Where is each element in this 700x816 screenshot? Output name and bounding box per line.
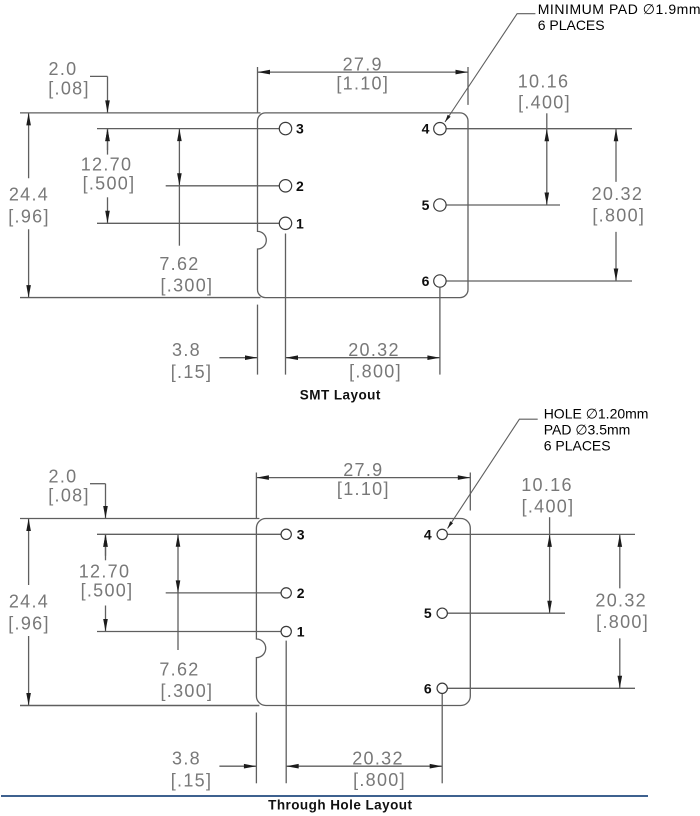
svg-text:3.8: 3.8	[172, 340, 201, 360]
Through-hole layout: dimension 2.0 [.08]	[48, 466, 108, 560]
svg-text:[1.10]: [1.10]	[337, 479, 390, 499]
SMT layout: dimension 3.8 [.15]	[171, 340, 258, 382]
SMT layout: pin 6 column extension line	[439, 288, 441, 375]
Through-hole layout: left extension line above body	[255, 473, 257, 519]
svg-text:6: 6	[424, 680, 432, 696]
svg-text:[.96]: [.96]	[8, 613, 50, 633]
SMT layout: dimension 20.32 [.800] right side	[592, 129, 646, 281]
Through-hole layout: pin 1 row line	[97, 631, 281, 633]
SMT layout: caption	[300, 388, 381, 403]
Through-hole layout: dimension 3.8 [.15]	[171, 748, 257, 790]
SMT layout: pin 3 row line	[97, 128, 279, 130]
Through-hole layout: dimension 27.9 [1.10]	[256, 460, 470, 499]
svg-text:[.800]: [.800]	[596, 612, 649, 632]
SMT layout: bottom edge extension line to left	[20, 297, 261, 299]
Through-hole layout: dimension 20.32 [.800] right side	[595, 534, 649, 688]
svg-text:2: 2	[297, 585, 305, 601]
Through-hole layout: bottom edge extension line to left	[20, 705, 259, 707]
SMT layout: pad 6	[422, 273, 446, 289]
svg-text:27.9: 27.9	[343, 460, 383, 480]
svg-text:24.4: 24.4	[9, 185, 49, 205]
SMT layout: dimension 7.62 [.300]	[159, 129, 213, 296]
svg-text:MINIMUM PAD ∅1.9mm: MINIMUM PAD ∅1.9mm	[538, 1, 700, 17]
svg-text:7.62: 7.62	[159, 254, 199, 274]
svg-text:4: 4	[422, 121, 430, 137]
svg-text:[.400]: [.400]	[522, 496, 575, 516]
svg-text:[.400]: [.400]	[518, 93, 571, 113]
svg-text:2.0: 2.0	[49, 466, 78, 486]
Through-hole layout: pad 6	[424, 680, 447, 696]
svg-text:2.0: 2.0	[49, 59, 78, 79]
svg-text:HOLE ∅1.20mm: HOLE ∅1.20mm	[544, 405, 649, 421]
SMT layout: callout text	[538, 1, 700, 33]
svg-text:20.32: 20.32	[352, 748, 404, 768]
SMT layout: dimension 12.70 [.500]	[81, 129, 136, 224]
Through-hole layout: top edge extension line to left	[20, 518, 259, 520]
Through-hole layout: pin 6 row line	[447, 687, 635, 689]
Through-hole layout: pad 5	[424, 605, 447, 621]
svg-text:20.32: 20.32	[592, 184, 644, 204]
svg-text:Through Hole Layout: Through Hole Layout	[268, 797, 412, 812]
svg-text:6 PLACES: 6 PLACES	[544, 437, 611, 453]
svg-text:1: 1	[297, 624, 305, 640]
SMT layout: pad 5	[422, 197, 446, 213]
Through-hole layout: pad 1	[281, 624, 305, 640]
svg-text:[.500]: [.500]	[81, 581, 134, 601]
SMT layout: pin 1 column extension line	[285, 234, 287, 375]
svg-text:SMT Layout: SMT Layout	[300, 388, 381, 403]
Through-hole layout: callout leader line	[448, 419, 538, 528]
svg-text:27.9: 27.9	[343, 54, 383, 74]
Through-hole layout: pin 6 column extension line	[441, 694, 443, 783]
svg-text:[.15]: [.15]	[171, 362, 213, 382]
SMT layout: pin 1 row line	[97, 222, 279, 224]
SMT layout: pad 3	[279, 121, 304, 137]
svg-text:3: 3	[297, 526, 305, 542]
svg-text:5: 5	[422, 197, 430, 213]
svg-text:10.16: 10.16	[518, 71, 570, 91]
SMT layout: pad 2	[279, 178, 304, 194]
SMT layout: dimension 27.9 [1.10]	[258, 54, 469, 93]
Through-hole layout: pin 4 row line	[447, 533, 635, 535]
SMT layout: left extension line above body	[257, 67, 259, 113]
SMT layout: pin 2 row line	[166, 185, 280, 187]
separator rule	[1, 795, 648, 797]
SMT layout: pad 1	[279, 215, 304, 231]
SMT layout: pin 4 row line	[446, 128, 632, 130]
svg-text:3: 3	[296, 121, 304, 137]
SMT layout: pad 4	[422, 121, 446, 137]
Through-hole layout: left extension line below body	[255, 713, 257, 784]
svg-text:[.800]: [.800]	[592, 206, 645, 226]
Through-hole layout: dimension 10.16 [.400]	[521, 475, 574, 613]
Through-hole layout: dimension 12.70 [.500]	[79, 534, 134, 631]
Through-hole layout: right extension line above body	[469, 473, 471, 511]
svg-text:12.70: 12.70	[79, 562, 131, 582]
Through-hole layout: dimension 20.32 [.800] bottom	[286, 748, 442, 790]
SMT layout: top edge extension line to left	[20, 112, 261, 114]
svg-text:PAD ∅3.5mm: PAD ∅3.5mm	[544, 421, 631, 437]
Through-hole layout: package body outline with notch	[256, 519, 470, 706]
svg-text:6 PLACES: 6 PLACES	[538, 17, 605, 33]
Through-hole layout: pad 2	[281, 585, 305, 601]
svg-text:20.32: 20.32	[595, 591, 647, 611]
svg-text:4: 4	[424, 526, 432, 542]
svg-text:12.70: 12.70	[81, 155, 133, 175]
svg-text:[1.10]: [1.10]	[336, 73, 389, 93]
SMT layout: callout leader line	[445, 14, 535, 122]
svg-text:10.16: 10.16	[521, 475, 573, 495]
svg-text:1: 1	[296, 215, 304, 231]
svg-text:[.08]: [.08]	[48, 78, 90, 98]
Through-hole layout: pad 4	[424, 526, 447, 542]
svg-text:[.800]: [.800]	[349, 362, 402, 382]
svg-text:[.96]: [.96]	[8, 207, 50, 227]
SMT layout: dimension 24.4 [.96]	[8, 113, 50, 298]
Through-hole layout: caption	[268, 797, 412, 812]
SMT layout: package body outline with notch	[258, 113, 469, 298]
svg-text:2: 2	[296, 178, 304, 194]
Through-hole layout: pin 3 row line	[97, 533, 281, 535]
SMT layout: pin 6 row line	[446, 280, 632, 282]
svg-text:3.8: 3.8	[172, 748, 201, 768]
SMT layout: right extension line above body	[467, 67, 469, 105]
svg-text:7.62: 7.62	[159, 660, 199, 680]
svg-text:5: 5	[424, 605, 432, 621]
svg-text:20.32: 20.32	[348, 340, 400, 360]
svg-text:[.300]: [.300]	[160, 276, 213, 296]
svg-text:[.15]: [.15]	[171, 771, 213, 791]
svg-text:[.08]: [.08]	[48, 486, 90, 506]
Through-hole layout: callout text	[544, 405, 649, 453]
SMT layout: dimension 20.32 [.800] bottom	[286, 340, 440, 382]
Through-hole layout: dimension 24.4 [.96]	[8, 519, 50, 706]
svg-text:24.4: 24.4	[9, 591, 49, 611]
Through-hole layout: pad 3	[281, 526, 305, 542]
Through-hole layout: pin 2 row line	[166, 592, 281, 594]
svg-text:[.800]: [.800]	[353, 770, 406, 790]
SMT layout: dimension 2.0 [.08]	[48, 59, 110, 155]
svg-text:[.500]: [.500]	[83, 174, 136, 194]
svg-text:[.300]: [.300]	[160, 681, 213, 701]
SMT layout: dimension 10.16 [.400]	[518, 71, 571, 205]
SMT layout: left extension line below body	[257, 305, 259, 375]
Through-hole layout: pin 1 column extension line	[285, 641, 287, 784]
Through-hole layout: pin 5 row line	[447, 612, 565, 614]
SMT layout: pin 5 row line	[446, 204, 560, 206]
svg-text:6: 6	[422, 273, 430, 289]
Through-hole layout: dimension 7.62 [.300]	[159, 534, 213, 701]
